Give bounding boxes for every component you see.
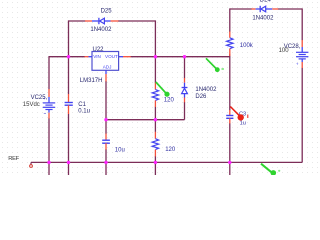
wire resistor branch vertical x155.4 seg1 bbox=[154, 57, 156, 83]
svg-text:1N4002: 1N4002 bbox=[195, 87, 217, 93]
junction bottom x106 bbox=[104, 161, 107, 164]
svg-text:D26: D26 bbox=[195, 94, 207, 100]
wire VC28 branch vertical x302 upper bbox=[301, 8, 303, 40]
junction ADJ x155.4 bbox=[154, 118, 157, 121]
wire top-left loop horizontal left part bbox=[69, 20, 86, 22]
wire top-right loop horizontal right part bbox=[278, 8, 302, 10]
svg-text:1N4002: 1N4002 bbox=[252, 15, 274, 21]
wire VC25 branch vertical x49 upper bbox=[48, 56, 50, 89]
node REF open circle bbox=[30, 165, 33, 168]
wire 100k branch vertical x229.8 seg3 bbox=[229, 123, 231, 175]
junction bottom x49 bbox=[47, 161, 50, 164]
marker green probe on R upper bbox=[156, 82, 170, 97]
diode top right 1N4002 bbox=[252, 0, 279, 21]
marker green probe on bottom wire bbox=[261, 164, 280, 176]
svg-text:REF: REF bbox=[8, 156, 19, 162]
svg-text:1u: 1u bbox=[240, 121, 246, 127]
wire ADJ horizontal bbox=[106, 119, 185, 121]
junction VOUT x184.5 bbox=[183, 55, 186, 58]
wire left branch vertical x68.5 lower bbox=[68, 114, 70, 175]
svg-text:120: 120 bbox=[164, 97, 175, 103]
svg-text:LM317H: LM317H bbox=[80, 78, 103, 84]
junction VIN x68.5 bbox=[67, 55, 70, 58]
junction bottom x68.5 bbox=[67, 161, 70, 164]
wire resistor branch vertical x155.4 seg3 bbox=[154, 156, 156, 175]
wire VOUT horizontal bbox=[131, 56, 230, 58]
wire REF stub bbox=[30, 162, 32, 164]
svg-text:VIN: VIN bbox=[93, 54, 101, 59]
svg-text:D25: D25 bbox=[101, 9, 113, 15]
svg-text:0.1u: 0.1u bbox=[78, 109, 90, 115]
svg-text:VOUT: VOUT bbox=[105, 54, 118, 59]
marker red probe on C3 bbox=[230, 107, 248, 121]
svg-text:15Vdc: 15Vdc bbox=[23, 102, 40, 108]
junction bottom x229.8 bbox=[228, 161, 231, 164]
wire VIN horizontal bbox=[49, 56, 85, 58]
svg-text:VC25,: VC25, bbox=[31, 95, 48, 101]
capacitor C3 bbox=[226, 110, 246, 127]
svg-text:10u: 10u bbox=[115, 147, 125, 153]
wire D26 branch vertical x184.5 upper bbox=[184, 57, 186, 79]
wire 100k branch vertical x229.8 seg2 bbox=[229, 54, 231, 110]
wire VC28 branch vertical x302 lower bbox=[301, 68, 303, 163]
junction VOUT x155.4 bbox=[154, 55, 157, 58]
wire left branch vertical x68.5 upper bbox=[68, 20, 70, 94]
resistor R upper 120 bbox=[152, 83, 174, 108]
svg-text:C1: C1 bbox=[78, 102, 86, 108]
wire VC25 branch vertical x49 lower bbox=[48, 118, 50, 175]
wire top-right loop horizontal left part bbox=[230, 8, 252, 10]
wire ADJ vertical x106 bbox=[105, 81, 107, 120]
svg-text:100k: 100k bbox=[240, 43, 254, 49]
wire 100k branch vertical x229.8 seg1 bbox=[229, 8, 231, 31]
resistor R 100k bbox=[227, 32, 254, 57]
wire top-left loop right vertical bbox=[154, 20, 156, 56]
svg-text:D24: D24 bbox=[260, 0, 272, 4]
wire top-left loop horizontal right part bbox=[118, 20, 155, 22]
svg-text:120: 120 bbox=[165, 147, 176, 153]
voltage source VC25 bbox=[23, 89, 55, 119]
voltage source VC28 bbox=[279, 40, 309, 68]
junction bottom x155.4 bbox=[154, 161, 157, 164]
svg-text:U22: U22 bbox=[93, 47, 105, 53]
wire 10u branch vertical x106 upper bbox=[105, 120, 107, 134]
wire D26 branch vertical x184.5 lower bbox=[184, 102, 186, 120]
svg-text:100: 100 bbox=[279, 48, 290, 54]
wire 10u branch vertical x106 lower bbox=[105, 149, 107, 175]
diode D26 bbox=[182, 78, 217, 102]
diode D25 bbox=[85, 9, 118, 34]
wire resistor branch vertical x155.4 seg2 bbox=[154, 107, 156, 132]
junction ADJ x106 bbox=[104, 118, 107, 121]
marker green probe on VOUT wire bbox=[206, 58, 224, 72]
capacitor C2 10u bbox=[102, 134, 125, 154]
op-amp U22 regulator box bbox=[80, 47, 131, 84]
svg-text:ADJ: ADJ bbox=[103, 65, 112, 70]
wire bottom horizontal bbox=[31, 161, 302, 163]
svg-text:1N4002: 1N4002 bbox=[90, 27, 112, 33]
capacitor C1 bbox=[65, 94, 90, 115]
resistor R lower 120 bbox=[152, 132, 176, 157]
